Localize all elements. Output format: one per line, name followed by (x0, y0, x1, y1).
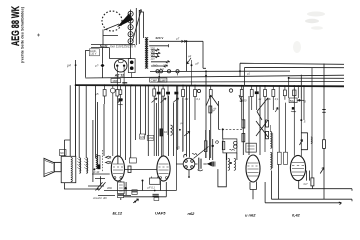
coil mid (171, 125, 173, 135)
bus junction dots (75, 84, 305, 87)
svg-text:220 V: 220 V (156, 36, 164, 40)
lamp stubs (159, 73, 177, 77)
switch column spine wire (130, 10, 132, 46)
pilot lamp 3 (167, 70, 170, 73)
wire second left riser (84, 50, 86, 78)
cap box CMF2 (159, 78, 167, 82)
circle component left (110, 88, 115, 93)
IF can squiggle (230, 148, 235, 151)
IF coil humps below (228, 158, 230, 170)
svg-text:125: 125 (150, 53, 155, 57)
svg-text:µF: µF (196, 62, 200, 66)
pot cluster resistor b (162, 89, 165, 96)
svg-text:0,1: 0,1 (197, 97, 201, 101)
IF can box (223, 139, 237, 153)
resistor 2 (116, 90, 119, 97)
rail G short (289, 77, 344, 79)
junction dot HT (185, 40, 187, 42)
wire 301 branch (300, 119, 302, 121)
svg-text:40Ω: 40Ω (107, 186, 112, 190)
pilot lamp 1 (156, 70, 159, 73)
diagonal arrow lower mid (133, 199, 138, 203)
bottom right line 1 (299, 181, 352, 202)
wire fuse vertical (102, 48, 104, 78)
waveband coil column 1 (96, 155, 97, 169)
output transformer box (61, 156, 76, 182)
electrolytic block (128, 59, 135, 73)
bowtie resistor 2 (266, 131, 269, 138)
svg-text:2kΩ: 2kΩ (152, 64, 158, 68)
triangle wires right (257, 98, 268, 120)
wire top of switch to transformer (139, 12, 144, 38)
box GrW 1 (140, 134, 145, 139)
bottom right line 3 arrow (265, 182, 341, 205)
svg-text:220: 220 (150, 47, 155, 51)
speaker driver box (54, 162, 61, 171)
box above tube3 (246, 143, 256, 152)
svg-text:µG: µG (176, 145, 180, 149)
resistor r7 (272, 90, 275, 97)
squiggle above tube (192, 154, 197, 155)
cap right of tube4 (307, 171, 310, 181)
fuse diamond (101, 64, 105, 68)
wire into entbrummer box (86, 49, 90, 51)
pilot lamp 4 (176, 70, 179, 73)
dashed AVC line (219, 128, 244, 130)
small circle under bus (229, 89, 232, 92)
power transformer primary winding (145, 38, 146, 69)
svg-text:264: 264 (162, 64, 168, 68)
svg-text:EL12: EL12 (113, 211, 123, 216)
switch side rail wires (136, 8, 139, 45)
diode arrow (207, 162, 212, 167)
diagonal wire tube to IF (194, 147, 209, 159)
wires down from cluster (279, 68, 312, 178)
transformer tap bottom (151, 65, 168, 68)
output transformer winding (71, 158, 73, 182)
HT riser with arrow (185, 41, 187, 71)
svg-text:G?: G? (304, 182, 308, 186)
box GrW 2 (147, 135, 153, 140)
IF can coil (234, 141, 237, 144)
svg-text:1MF: 1MF (160, 78, 166, 82)
tiny value labels under-bus (185, 97, 279, 103)
waveband wires below (88, 174, 110, 186)
tube3 envelope (246, 155, 260, 182)
tube UAF internals (159, 164, 169, 174)
wire below round tube (195, 153, 227, 187)
resistor between tubes (128, 161, 130, 163)
cap box 1MF (111, 79, 121, 83)
tube4 internals (292, 163, 304, 176)
pilot lamp 2 (159, 70, 162, 73)
mid verticals group (64, 85, 260, 182)
rail E (240, 63, 344, 77)
svg-text:110 V: 110 V (90, 53, 96, 56)
svg-text:10: 10 (164, 130, 168, 134)
mid vertical to dashed (218, 101, 220, 129)
power transformer core (145, 38, 148, 69)
field coil 1 (79, 158, 81, 173)
NF box left (60, 150, 67, 156)
rail B (157, 81, 344, 84)
power transformer secondary winding (147, 38, 148, 69)
diagonal mark left (118, 99, 123, 103)
coil left of tube4 lower (270, 152, 272, 169)
dial pointer wedge (117, 14, 133, 28)
pot cluster resistor a (152, 85, 179, 190)
cap box right cluster (132, 190, 137, 195)
hatch box right of diode (212, 162, 215, 167)
tiny cross mark top left (37, 34, 40, 37)
wire mains to rectifier (91, 48, 109, 59)
far right cluster resistor s1 (275, 68, 312, 178)
svg-text:6,3: 6,3 (160, 67, 164, 71)
tube UAF envelope (157, 156, 170, 181)
tube3 internals (248, 163, 259, 176)
tube EL12 envelope (111, 156, 124, 181)
rectifier tube AZ12 (114, 59, 127, 72)
wire right mid riser (300, 75, 302, 98)
cap plate mark (122, 82, 127, 84)
dial dashed circle (102, 11, 122, 31)
svg-text:n62: n62 (188, 211, 196, 216)
pot cluster cap c (174, 92, 178, 95)
svg-text:µ7: µ7 (176, 37, 180, 41)
switch selector arrow (133, 10, 142, 42)
cap c5 (255, 91, 259, 94)
bowtie diagonals (256, 120, 268, 137)
resistor right-mid 1 (242, 120, 245, 128)
resistor right-mid 2 (242, 134, 245, 142)
V wires mid (206, 95, 219, 106)
svg-text:1MF: 1MF (112, 79, 118, 83)
svg-text:bei 110/125/220 V: bei 110/125/220 V (111, 44, 138, 48)
junction dot waveband (93, 168, 95, 170)
svg-text:0,42: 0,42 (292, 213, 301, 218)
rail C heater (150, 70, 290, 72)
field coil 2 (86, 158, 88, 173)
wires below EL12 (118, 181, 131, 200)
small box pair (277, 152, 281, 164)
box under EL12 (118, 182, 125, 194)
IF resistor coil left (204, 141, 207, 152)
small resistor mid2 (160, 129, 163, 136)
wire switch to transformer primary (130, 44, 132, 59)
svg-text:µ4: µ4 (67, 64, 71, 68)
bottom right line 2 (272, 164, 353, 199)
svg-text:AZ 12: AZ 12 (114, 74, 124, 78)
wire rectifier top (109, 58, 131, 60)
wiper arrow b (161, 98, 167, 103)
resistor r4 (240, 90, 243, 97)
right wire cap marks (322, 110, 325, 113)
svg-text:0,1: 0,1 (275, 97, 279, 101)
hook wire left of round tube (176, 154, 187, 164)
wire under speaker assembly (64, 183, 99, 189)
below-bus resistor row left: resistor (103, 85, 123, 156)
svg-text:GrW: GrW (148, 136, 154, 140)
right long vertical wire (323, 64, 325, 200)
coil left of tube4 upper (270, 132, 272, 149)
transformer tap 220 (151, 49, 159, 52)
svg-text:Anschl. 4Ω: Anschl. 4Ω (92, 196, 108, 200)
riser rail F left (205, 71, 207, 85)
resistor r6 (264, 90, 267, 97)
transformer tap 110 (151, 61, 170, 64)
mid pot arrow (184, 131, 190, 136)
wiper arrow a (152, 98, 158, 103)
pot cluster cap b (166, 92, 170, 95)
transformer tap 150 (151, 52, 160, 55)
resistor r3 (209, 90, 212, 97)
transformer tap 125 (151, 55, 159, 58)
svg-text:GrW: GrW (140, 135, 146, 139)
left arrow lower (275, 108, 278, 113)
resistor right of tube4 (311, 178, 314, 186)
entbrummer box (90, 49, 100, 56)
svg-text:UAF5: UAF5 (155, 211, 166, 216)
svg-text:µ?: µ? (95, 63, 99, 67)
tube EL12 internals (113, 164, 123, 174)
AVC arrow (239, 95, 242, 102)
waveband column 2 (98, 156, 100, 165)
mid wire 186 (185, 86, 187, 157)
IF can resistor (222, 141, 225, 149)
svg-text:µ2: µ2 (188, 54, 192, 58)
switch blade bottom (96, 182, 106, 190)
under tube2 cap (153, 194, 159, 196)
junction dot right (298, 99, 300, 101)
svg-text:µF 40: µF 40 (93, 170, 100, 174)
under tube2 box (150, 178, 161, 184)
svg-text:µ2: µ2 (181, 121, 185, 125)
wire dial to switch (103, 30, 118, 45)
svg-text:110: 110 (150, 57, 155, 61)
transformer tap HV top (149, 41, 206, 68)
rectifier cathode wires (117, 67, 124, 85)
node u4 (75, 64, 77, 66)
cap box CMF1 (150, 78, 159, 82)
contact arrows (106, 156, 110, 164)
svg-text:NF: NF (60, 151, 64, 155)
rail D (245, 67, 344, 85)
switch contact column circles (128, 11, 133, 44)
bowtie resistor 1 (266, 120, 269, 127)
faint smudge top right (307, 12, 325, 17)
resistor mid (42k) (209, 106, 212, 113)
box between tubes (130, 158, 137, 163)
pot cluster cap a (157, 92, 161, 95)
inter-tube wire (125, 169, 157, 171)
curl G (216, 141, 219, 144)
rail A (85, 75, 344, 78)
round tube socket (183, 158, 195, 170)
svg-text:(rechte Seite des Schaltbildes: (rechte Seite des Schaltbildes) (20, 6, 25, 63)
dot beside box (125, 187, 127, 189)
svg-text:S: S (304, 120, 306, 124)
under tube2 wire row1 (104, 181, 176, 191)
svg-text:u n62: u n62 (245, 213, 256, 218)
wiper arrow c (173, 98, 179, 103)
wire switch bottom to left (91, 44, 135, 46)
arrow on HT riser (187, 58, 191, 64)
svg-text:µF 0,1: µF 0,1 (148, 186, 156, 190)
resistor s2 (293, 90, 296, 96)
transformer tap 2 with bar (149, 44, 168, 47)
svg-text:Netz: Netz (100, 45, 108, 49)
main chassis bus (75, 85, 344, 86)
box with label (289, 98, 297, 103)
under tube2 wire row2 (124, 191, 167, 197)
resistor r2 (194, 90, 197, 97)
right resistor row under bus (182, 85, 275, 152)
small box under EL12 (118, 194, 124, 197)
speaker cone (44, 158, 54, 176)
svg-text:CMF: CMF (151, 78, 158, 82)
small coil right (311, 137, 312, 143)
tube4 envelope (290, 155, 305, 180)
black square cap (292, 107, 295, 110)
cap dark 2 (119, 90, 122, 95)
cap right of round tube (199, 158, 201, 170)
wire left riser (75, 60, 77, 156)
resistor r1 (182, 90, 185, 97)
IF wire mid (209, 130, 211, 160)
dashed mechanical link (102, 150, 104, 172)
resistor r5 (250, 90, 253, 97)
